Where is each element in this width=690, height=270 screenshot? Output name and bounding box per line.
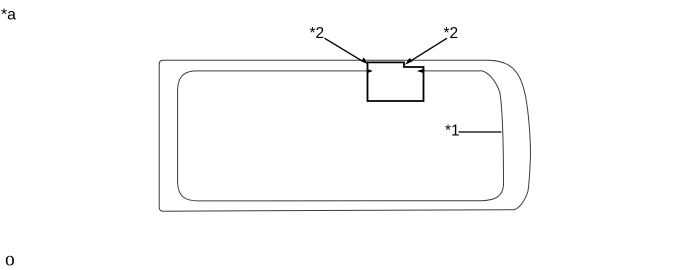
leader line left *2 [325,38,364,62]
arrowhead right *2 [405,58,413,65]
svg-text:*1: *1 [445,122,460,139]
leader line for *1 [459,131,502,133]
stop bracket (box) [368,62,424,101]
svg-text:*2: *2 [310,25,325,42]
leader line right *2 [410,38,448,62]
svg-text:*a: *a [1,7,16,24]
back glass inner outline [178,71,504,201]
svg-text:o: o [5,249,15,270]
claw arrow right [417,69,424,73]
arrowhead left *2 [361,57,368,64]
back glass outer outline [159,60,530,211]
claw arrow left [367,69,373,74]
